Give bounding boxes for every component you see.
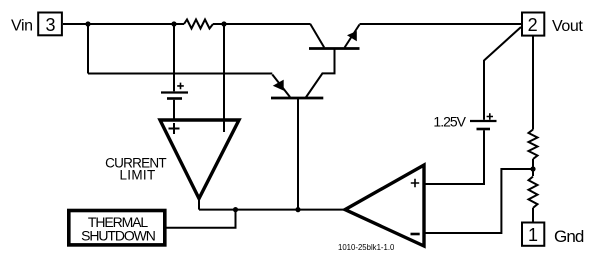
CL minus input stub xyxy=(223,121,225,132)
terminal box pin 1 xyxy=(522,223,544,246)
battery B2 bottom plate xyxy=(477,128,491,131)
op-amp U2 error amplifier xyxy=(345,165,424,246)
op-amp U1 CURRENT LIMIT comparator xyxy=(160,120,239,199)
wire: Vout diagonal to reference xyxy=(484,27,521,61)
svg-text:SHUTDOWN: SHUTDOWN xyxy=(81,228,155,244)
node: Vin junction xyxy=(85,21,90,26)
transistor Q1 emitter diagonal xyxy=(345,25,360,48)
resistor R1 (upper divider) xyxy=(529,130,538,160)
svg-text:2: 2 xyxy=(528,15,538,35)
wire: reference bottom lead to U2 + input xyxy=(424,130,484,184)
svg-text:1010-25blk1-1.0: 1010-25blk1-1.0 xyxy=(338,243,395,252)
node: resistor left terminal xyxy=(171,21,176,26)
svg-text:LIMIT: LIMIT xyxy=(119,167,155,182)
wire: right sense line down to CL - input xyxy=(223,24,225,119)
THERMAL SHUTDOWN box xyxy=(69,211,165,245)
battery B2 plus sign xyxy=(487,113,493,119)
node: resistor right terminal xyxy=(221,21,226,26)
wire: battery B1 to CL + input xyxy=(173,100,175,120)
transistor Q2 emitter arrow xyxy=(273,80,284,91)
battery B1 plus sign xyxy=(177,83,184,90)
svg-text:Vin: Vin xyxy=(11,18,33,35)
wire: drive bus U1 to U2 xyxy=(199,209,345,211)
wire: U1 output drop xyxy=(198,198,200,210)
svg-text:3: 3 xyxy=(45,15,55,35)
wire: reference top lead xyxy=(483,60,485,120)
battery B1 bottom plate xyxy=(167,97,182,100)
svg-text:1.25V: 1.25V xyxy=(433,114,466,130)
transistor Q2 base lead xyxy=(297,98,299,210)
wire: left sense line down to offset battery xyxy=(173,24,175,91)
node: feedback tap on divider xyxy=(530,166,535,171)
transistor Q1 collector diagonal xyxy=(310,24,324,48)
svg-text:Gnd: Gnd xyxy=(554,227,584,246)
terminal box pin 3 xyxy=(38,13,62,36)
U2 minus input mark xyxy=(411,233,420,236)
resistor R2 (lower divider) xyxy=(529,177,538,208)
battery B1 offset (current limit threshold) top plate xyxy=(161,91,188,93)
transistor Q1 emitter arrow xyxy=(347,31,357,41)
transistor Q1 base bar xyxy=(309,47,360,50)
wire: Q1 emitter to Vout xyxy=(360,23,522,25)
battery B2 1.25V reference top plate xyxy=(470,120,497,122)
transistor Q2 collector diagonal xyxy=(306,49,335,98)
terminal box pin 2 xyxy=(522,13,544,36)
wire: horizontal to Q2 emitter xyxy=(88,73,272,75)
wire: Vin vertical drop xyxy=(87,23,89,74)
svg-text:1: 1 xyxy=(528,225,538,245)
wire: resistor to Q1 collector xyxy=(213,23,311,25)
node: Q2 base tap xyxy=(295,207,300,212)
wire: R1 to tap xyxy=(532,159,534,176)
wire: R2 to Gnd box xyxy=(532,208,534,222)
node: thermal shutdown tap xyxy=(233,207,238,212)
U2 plus input mark xyxy=(411,179,419,187)
transistor Q2 base bar xyxy=(271,97,323,100)
svg-text:Vout: Vout xyxy=(552,18,583,35)
wire: Vout down to divider xyxy=(532,36,534,129)
wire: U2 - input feedback xyxy=(424,169,533,233)
resistor Rsc (top sense resistor) xyxy=(184,20,213,29)
transistor Q2 emitter diagonal xyxy=(272,75,290,98)
wire: thermal shutdown connection xyxy=(166,210,236,228)
U1 plus input mark xyxy=(169,123,180,134)
wire: Vin to resistor xyxy=(63,23,184,25)
